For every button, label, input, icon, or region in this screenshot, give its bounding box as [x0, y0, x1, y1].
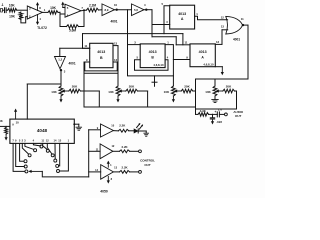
resistor R4 5.6M — [67, 25, 79, 29]
pin 13 label NOR — [221, 25, 225, 29]
wire FF B pin13 — [113, 45, 118, 47]
svg-text:20K: 20K — [226, 85, 232, 89]
wire NOR in2 from FF C — [215, 30, 222, 45]
FF D inner bracket — [135, 60, 169, 71]
pin 11 label FF C — [185, 41, 188, 45]
svg-text:20K: 20K — [129, 85, 135, 89]
FF C Vss arrow — [215, 67, 224, 76]
pin 1 label U1a — [44, 8, 46, 12]
power arrow up U4c — [107, 161, 112, 168]
pin right 4048 — [73, 123, 79, 127]
FF D outer bracket — [128, 45, 174, 76]
input jack J1 — [1, 8, 4, 12]
wire to inverter U2d — [60, 48, 90, 56]
resistor 3.3K — [198, 113, 209, 117]
FF A D-loop bracket — [164, 6, 170, 34]
inverter U2a 4001 — [102, 4, 115, 16]
svg-text:10K: 10K — [50, 6, 57, 10]
wire R3 to U1b — [58, 12, 65, 14]
TL072 label — [37, 26, 47, 30]
svg-text:.1: .1 — [1, 3, 4, 7]
svg-text:5,6: 5,6 — [134, 8, 138, 12]
ground LED — [144, 133, 149, 136]
svg-text:4048: 4048 — [37, 128, 48, 133]
pin 1 label FF A — [196, 12, 198, 16]
power arrow down U4c — [107, 176, 113, 183]
resistor 20K cell4 label — [226, 85, 232, 89]
svg-text:8,9: 8,9 — [105, 8, 109, 12]
wire bus79 to cell4 — [214, 79, 216, 86]
resistor 10K cell2 — [116, 86, 120, 103]
svg-text:12: 12 — [221, 16, 225, 20]
resistor R2 10K label — [9, 15, 16, 19]
svg-text:10K: 10K — [51, 90, 57, 94]
resistor 20K cell2 — [119, 89, 138, 93]
wire to buffer1 — [89, 129, 101, 131]
resistor 2.2K U4a label — [119, 123, 126, 127]
wire NOR in2 — [222, 29, 228, 31]
wire FF C pin9 — [173, 59, 190, 61]
wire R2 to pin2 — [21, 17, 27, 23]
resistor R1 10K label — [9, 3, 16, 7]
svg-text:4001: 4001 — [110, 20, 117, 24]
svg-text:4013: 4013 — [199, 50, 207, 54]
4013 B2 label — [149, 50, 157, 59]
svg-text:11: 11 — [185, 41, 188, 45]
4048 label — [37, 128, 48, 133]
resistor R5 2.2M — [87, 8, 99, 12]
wire R5 to inverter — [99, 9, 103, 11]
resistor R1 10K — [8, 8, 17, 12]
pins 5,6 label — [134, 8, 138, 12]
buffer U4a 4050 — [101, 124, 114, 137]
node dot NOR out — [242, 24, 244, 26]
wire cell2 to bus — [138, 91, 148, 107]
svg-text:TL072: TL072 — [37, 26, 47, 30]
resistor 2.2K U4a — [113, 129, 128, 132]
pin 13 label FF B — [114, 42, 118, 46]
wire invB down at x152 — [151, 10, 153, 37]
pin 5 label FF A — [162, 2, 164, 6]
FF B Q-D bracket — [85, 62, 117, 71]
pins 1,2 label U2d — [58, 58, 62, 62]
capacitor .022 — [210, 114, 214, 119]
resistor 3.3K label — [200, 109, 207, 113]
capacitor C1 — [5, 8, 8, 13]
resistor 10K cell4 label — [205, 90, 211, 94]
svg-text:.022: .022 — [216, 120, 222, 124]
wire NOR out right — [243, 25, 249, 79]
pin 3 label U2d — [64, 70, 66, 74]
power arrow 4048 pin10 — [14, 109, 17, 120]
wire cell3 to node — [193, 90, 196, 92]
wire clock drop to M1 — [82, 34, 84, 49]
pin 3 label FF A — [166, 20, 168, 24]
wire rail109 — [196, 108, 237, 110]
switch contact 15 — [56, 164, 59, 167]
flip-flop U3c 4013 box — [140, 44, 165, 68]
svg-text:1,2: 1,2 — [58, 58, 62, 62]
switch contact 1 — [57, 170, 60, 173]
resistor 2.2K U4c label — [122, 166, 129, 170]
4048 pin numbers — [12, 139, 69, 143]
pin 5 label FF D — [137, 56, 139, 60]
switch wire pin5 — [20, 143, 24, 161]
buffer U4c 4050 — [101, 165, 114, 180]
pin 9 label FF C — [186, 55, 188, 59]
pins 4,6,8,10 label FF C — [203, 62, 214, 66]
svg-text:10K: 10K — [108, 90, 114, 94]
control out terminal 1 — [139, 150, 142, 153]
pin 12 label FF B — [114, 58, 118, 62]
resistor R5 2.2M label — [89, 3, 96, 7]
resistor 10K 4048 left — [0, 126, 10, 134]
switch wire pin7 — [13, 143, 25, 171]
svg-text:10K: 10K — [0, 119, 3, 123]
pin 10 label — [114, 3, 118, 7]
switch wire pin2 — [22, 143, 28, 154]
pin 5 label U1b — [67, 6, 69, 10]
svg-text:4013: 4013 — [178, 12, 186, 16]
wire clock down at x127 — [127, 10, 129, 45]
pin 3 label U1a — [29, 6, 31, 10]
wire FF B down to ladder — [117, 46, 119, 86]
LED D1 — [134, 129, 138, 133]
AUDIO OUT label — [233, 110, 243, 118]
resistor 10K cell1 label — [51, 90, 57, 94]
svg-text:10: 10 — [16, 121, 20, 125]
switch wire pin4 — [33, 143, 40, 146]
wire invB out — [144, 9, 152, 11]
wire FF C pin11 — [176, 44, 190, 46]
wire node195 vertical — [196, 79, 199, 114]
wire cell1 to 4048 — [27, 84, 61, 119]
switch wire pin3 — [25, 143, 34, 149]
pin 11 label NOR — [241, 17, 244, 21]
svg-text:4001: 4001 — [233, 38, 240, 42]
wire to cap — [213, 113, 218, 115]
wire FF A out to NOR — [195, 16, 228, 20]
wire FF D pin3 — [128, 44, 141, 46]
resistor 2.2K U4c — [113, 171, 138, 174]
svg-text:B: B — [100, 56, 103, 60]
pin 12 label U4b — [111, 144, 114, 148]
svg-text:20K: 20K — [184, 85, 190, 89]
resistor 10K cell1 — [59, 70, 63, 102]
switch wire pin1 — [60, 143, 69, 171]
node dot inv B out — [145, 9, 147, 11]
svg-text:OUT: OUT — [235, 114, 242, 118]
pin 9 label 4048 left — [12, 122, 14, 126]
svg-text:4001: 4001 — [69, 62, 76, 66]
svg-text:5.6M: 5.6M — [69, 29, 76, 33]
resistor R2 10K — [19, 12, 23, 19]
wire invA to invB — [115, 9, 132, 11]
svg-text:10K: 10K — [9, 3, 16, 7]
resistor 10K cell4 — [212, 86, 218, 103]
svg-text:11: 11 — [241, 17, 244, 21]
svg-text:20K: 20K — [72, 85, 78, 89]
wire bracket to sum bus — [83, 62, 85, 107]
wire clock drop to M3 — [182, 34, 184, 45]
feedback wire left — [60, 12, 67, 26]
op-amp U1a TL072 — [27, 6, 42, 19]
resistor 20K cell1 label — [72, 85, 78, 89]
pin 14 label U4c — [95, 168, 98, 172]
resistor 20K cell3 — [174, 89, 193, 93]
pin 9 label U4a — [97, 126, 99, 130]
wire LED to ground — [138, 131, 146, 133]
4013 A2 label — [199, 50, 207, 59]
svg-text:+: + — [214, 110, 216, 114]
wire U1a out — [42, 11, 48, 13]
inverter U2b 4001 — [132, 4, 145, 16]
capacitor .022 label — [216, 120, 222, 124]
4001 label NOR — [233, 38, 240, 42]
pin 10 label 4048 — [16, 121, 20, 125]
switch contact 5 — [24, 160, 27, 163]
wire to LED — [129, 130, 134, 132]
wire clock to FF A pin3 — [152, 24, 170, 26]
wire R1 to op-amp — [17, 9, 28, 11]
flip-flop U3a 4013 A box — [170, 5, 195, 29]
svg-text:A: A — [181, 17, 184, 21]
switch contact 14 — [54, 159, 57, 162]
svg-text:4013: 4013 — [97, 50, 105, 54]
svg-text:OUT: OUT — [144, 163, 151, 167]
pins 4,6,8,10 label — [153, 63, 164, 67]
ground stub FF D — [152, 76, 157, 86]
switch contact 9 — [24, 165, 27, 168]
resistor 10K cell2 label — [108, 90, 114, 94]
svg-text:2.2K: 2.2K — [122, 166, 129, 170]
pin 11 label FF B — [84, 44, 87, 48]
wire to buffer2 — [89, 150, 100, 152]
pin 3 label FF D — [134, 40, 136, 44]
ground arrow 4048 left — [5, 134, 8, 140]
resistor R4 5.6M label — [69, 29, 76, 33]
pin 12 label NOR — [221, 16, 225, 20]
CONTROL OUT label — [140, 158, 155, 166]
svg-text:1.0: 1.0 — [218, 107, 223, 111]
wire FF D down to ladder — [172, 76, 174, 86]
control out terminal 2 — [139, 171, 142, 174]
switch wire pin12 — [47, 143, 52, 154]
ground 4048 right — [76, 127, 82, 130]
wire clock bus y34 — [83, 33, 183, 35]
feedback wire right — [79, 10, 85, 26]
resistor 10K 4048 left label — [0, 119, 3, 123]
svg-text:3.3K: 3.3K — [200, 109, 207, 113]
resistor 10K cell3 — [172, 86, 176, 103]
pin 11 label U4b — [96, 147, 99, 151]
resistor R3 10K — [48, 11, 58, 15]
resistor R3 10K label — [50, 6, 57, 10]
wire Q to clock2 — [152, 37, 176, 45]
resistor 20K cell4 — [216, 89, 235, 93]
wire U1b out — [81, 9, 87, 11]
pin 4 label — [144, 3, 146, 7]
pin 6 label U1b — [67, 13, 69, 17]
capacitor 1.0 label — [218, 107, 223, 111]
pin 9 label FF B — [86, 58, 88, 62]
capacitor 1.0 — [217, 112, 224, 117]
switch contact 4 — [40, 145, 43, 148]
4001 label U2d — [69, 62, 76, 66]
switch wire pin15 — [59, 143, 60, 166]
wire cell1 to bus — [81, 91, 100, 107]
switch contact 7 — [25, 170, 28, 173]
flip-flop U3b 4013 B box — [90, 43, 113, 67]
node dot inv A out — [116, 9, 118, 11]
pins 8,9 label — [105, 8, 109, 12]
svg-text:10: 10 — [114, 3, 118, 7]
resistor 20K cell3 label — [184, 85, 190, 89]
wire buffer bus vertical — [88, 130, 90, 177]
4013 B label — [97, 50, 105, 60]
resistor 20K cell2 label — [129, 85, 135, 89]
capacitor C1 .1 label — [1, 3, 4, 7]
wire sum bus — [84, 106, 196, 108]
switch wiper arrow — [28, 170, 42, 173]
resistor 20K cell1 — [62, 89, 81, 93]
power arrow U1b — [61, 2, 65, 8]
switch contact 11 — [46, 149, 49, 152]
wire FF B pin11 — [83, 47, 90, 49]
resistor 2.2K U4b label — [122, 145, 129, 149]
switch contact 12 — [51, 154, 54, 157]
4050 label — [100, 189, 108, 193]
resistor 2.2K U4b — [113, 150, 139, 153]
svg-text:4050: 4050 — [100, 189, 108, 193]
pin 13 label FF C — [216, 40, 220, 44]
wire cell4 right — [235, 91, 237, 109]
NOR gate U2c 4001 — [226, 16, 243, 34]
capacitor 1.0 plus — [214, 110, 216, 114]
svg-text:11: 11 — [84, 44, 87, 48]
svg-text:13: 13 — [221, 25, 225, 29]
pin 1 label FF D — [167, 40, 169, 44]
wire inverter to cell1 — [60, 70, 62, 86]
LED arrows — [137, 123, 144, 129]
svg-text:4,6,8,10: 4,6,8,10 — [153, 63, 164, 67]
audio out terminal — [225, 113, 228, 116]
svg-text:4,6,8,10: 4,6,8,10 — [203, 62, 214, 66]
switch wire pin14 — [54, 143, 56, 159]
wire 3.3K right — [209, 113, 213, 115]
wire bus79 — [196, 78, 249, 80]
svg-text:2.2M: 2.2M — [89, 3, 96, 7]
svg-text:2.2K: 2.2K — [119, 123, 126, 127]
pin 10 label U4a — [111, 123, 114, 127]
svg-text:4013: 4013 — [149, 50, 157, 54]
switch wire pin11 — [43, 143, 48, 149]
node dot U2d out — [60, 69, 62, 71]
wire wiper bus — [42, 171, 88, 177]
FF B outer bracket — [84, 72, 118, 74]
svg-text:CONTROL: CONTROL — [140, 158, 155, 162]
switch contact 3 — [34, 149, 37, 152]
svg-text:10K: 10K — [164, 90, 170, 94]
ground arrow audio — [211, 119, 214, 125]
op-amp U1b TL072 — [65, 4, 81, 17]
svg-text:10K: 10K — [205, 90, 211, 94]
resistor 10K cell3 label — [164, 90, 170, 94]
switch contact 2 — [28, 154, 31, 157]
IC 4048 box — [10, 119, 74, 143]
flip-flop U3d 4013 A box — [190, 44, 215, 67]
buffer U4b 4050 — [100, 144, 113, 159]
wire to buffer3 — [89, 171, 101, 173]
switch wire pin9 — [16, 143, 25, 166]
inverter U2d 4001 down — [55, 57, 66, 69]
power arrow pin 4 U1a — [36, 15, 42, 26]
svg-text:13: 13 — [114, 42, 118, 46]
4001 label top — [110, 20, 117, 24]
pin 7 label U1b — [81, 6, 83, 10]
pin 4 label FF D — [167, 56, 169, 60]
svg-text:13: 13 — [216, 40, 220, 44]
4013 A label — [178, 12, 186, 21]
pin 2 label U1a — [29, 15, 31, 19]
svg-text:2.2K: 2.2K — [122, 145, 129, 149]
power arrow pin 8 U1a — [36, 2, 41, 11]
svg-text:10K: 10K — [9, 15, 16, 19]
pin 13 label U4c — [114, 165, 117, 169]
